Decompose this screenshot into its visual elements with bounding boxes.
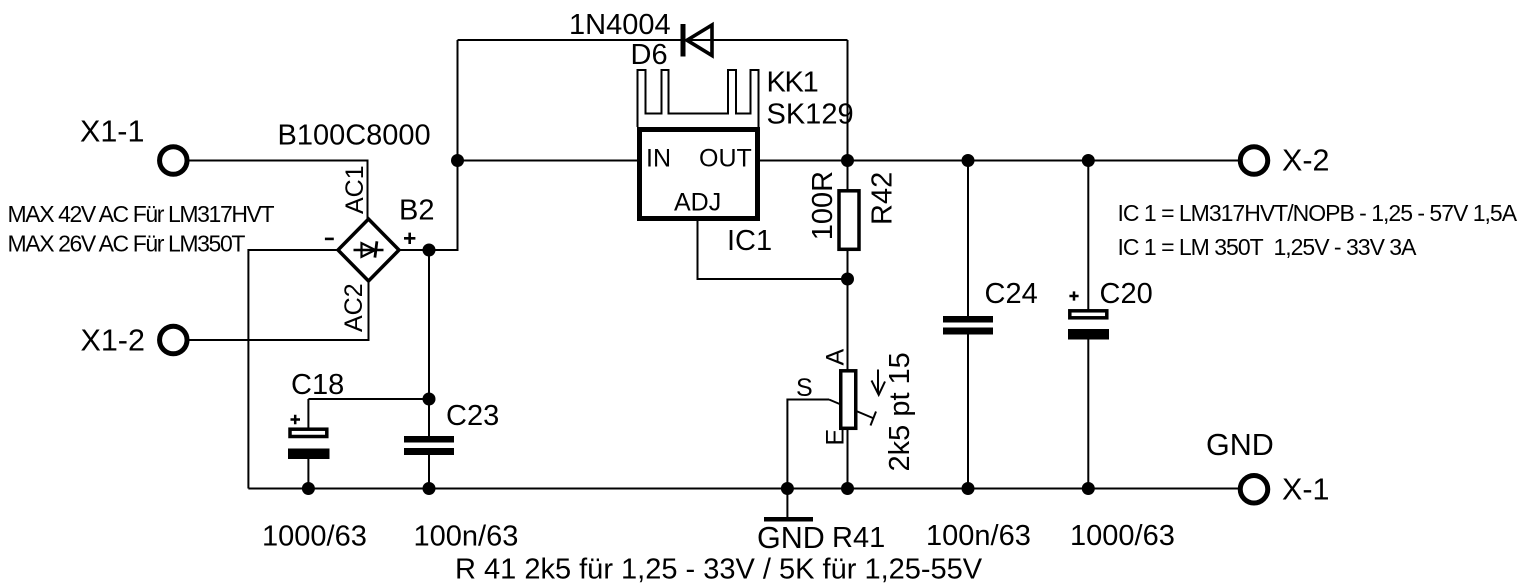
svg-text:100R: 100R <box>807 171 839 240</box>
svg-text:IC 1 = LM 350T 1,25V - 33V 3A: IC 1 = LM 350T 1,25V - 33V 3A <box>1118 234 1418 260</box>
svg-text:SK129: SK129 <box>767 98 854 130</box>
svg-text:R42: R42 <box>866 172 898 225</box>
svg-text:AC1: AC1 <box>341 165 369 214</box>
svg-text:A: A <box>822 349 850 366</box>
svg-text:R41: R41 <box>832 522 885 554</box>
svg-text:IC1: IC1 <box>727 225 772 257</box>
svg-text:C18: C18 <box>291 369 344 401</box>
svg-text:C20: C20 <box>1100 278 1153 310</box>
svg-text:X1-2: X1-2 <box>81 323 145 357</box>
svg-text:E: E <box>822 429 850 446</box>
svg-text:2k5 pt 15: 2k5 pt 15 <box>884 352 916 471</box>
svg-text:X-2: X-2 <box>1282 144 1329 178</box>
svg-text:1N4004: 1N4004 <box>569 9 671 41</box>
svg-text:IN: IN <box>646 145 671 173</box>
svg-text:B2: B2 <box>399 195 434 227</box>
svg-text:MAX 26V AC Für LM350T: MAX 26V AC Für LM350T <box>8 231 246 257</box>
svg-text:X-1: X-1 <box>1282 473 1329 507</box>
svg-text:S: S <box>796 374 813 402</box>
svg-text:C24: C24 <box>985 278 1038 310</box>
svg-text:1000/63: 1000/63 <box>262 521 367 553</box>
svg-text:KK1: KK1 <box>767 66 818 98</box>
svg-text:X1-1: X1-1 <box>80 114 144 148</box>
svg-text:D6: D6 <box>631 39 668 71</box>
svg-text:1000/63: 1000/63 <box>1070 520 1175 552</box>
svg-text:MAX 42V AC Für LM317HVT: MAX 42V AC Für LM317HVT <box>8 201 275 227</box>
svg-text:B100C8000: B100C8000 <box>278 120 431 152</box>
svg-text:GND: GND <box>757 521 825 555</box>
svg-text:OUT: OUT <box>699 145 752 173</box>
svg-text:GND: GND <box>1206 428 1274 462</box>
svg-text:C23: C23 <box>446 400 499 432</box>
svg-text:AC2: AC2 <box>340 283 368 332</box>
svg-text:ADJ: ADJ <box>674 189 721 217</box>
svg-text:100n/63: 100n/63 <box>414 521 519 553</box>
svg-text:IC 1 = LM317HVT/NOPB - 1,25 -: IC 1 = LM317HVT/NOPB - 1,25 - 57V 1,5A <box>1118 200 1518 226</box>
svg-text:100n/63: 100n/63 <box>926 520 1031 552</box>
svg-text:R 41 2k5 für 1,25 - 33V / 5K f: R 41 2k5 für 1,25 - 33V / 5K für 1,25-55… <box>455 554 983 586</box>
